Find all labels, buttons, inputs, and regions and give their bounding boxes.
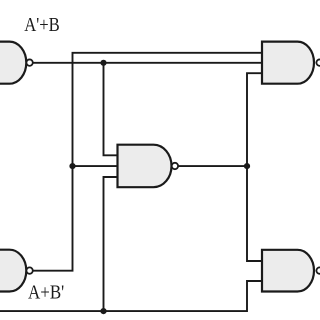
wire: left bus branch to NAND3 middle input (73, 165, 118, 167)
bubble of U5 (clipped at right edge) (316, 267, 320, 273)
svg-text:A+B': A+B' (28, 281, 64, 303)
wire: G4 top input from left vertical bus, down to NOR2 output (33, 53, 262, 271)
gate U4 (top-right NAND, 3-input) (262, 42, 314, 84)
junction node on NAND3 output net (244, 163, 250, 169)
bubble of U4 (clipped at right edge) (316, 59, 320, 65)
wire: NAND3 bottom input from bottom bus (104, 177, 118, 311)
svg-text:A'+B: A'+B (24, 14, 60, 36)
wire: node Y1 branch down to NAND3 top input (104, 63, 118, 156)
wire: NAND3 output net (178, 165, 247, 167)
gate U5 (bottom-right NAND, 2-input) (262, 250, 314, 292)
junction node at Y1 / NAND3 top input branch (100, 60, 106, 66)
wire: NAND3 output branch to G4 bottom input and G5 top input (247, 73, 262, 261)
gate U1 (top-left NAND, clipped at left edge) (0, 42, 26, 84)
bubble of U1 (26, 59, 32, 65)
gate U2 (bottom-left NAND, clipped at left edge) (0, 250, 26, 292)
wire: NOR1 output to G4 middle input (net Y1) (33, 62, 262, 64)
bubble of U3 (172, 163, 178, 169)
gate U3 (middle NAND) (118, 145, 172, 188)
junction node on left bus at NAND3 middle input (69, 163, 75, 169)
junction node on bottom bus (100, 308, 106, 314)
wire: bottom bus to G5 bottom input (0, 281, 262, 311)
bubble of U2 (26, 267, 32, 273)
